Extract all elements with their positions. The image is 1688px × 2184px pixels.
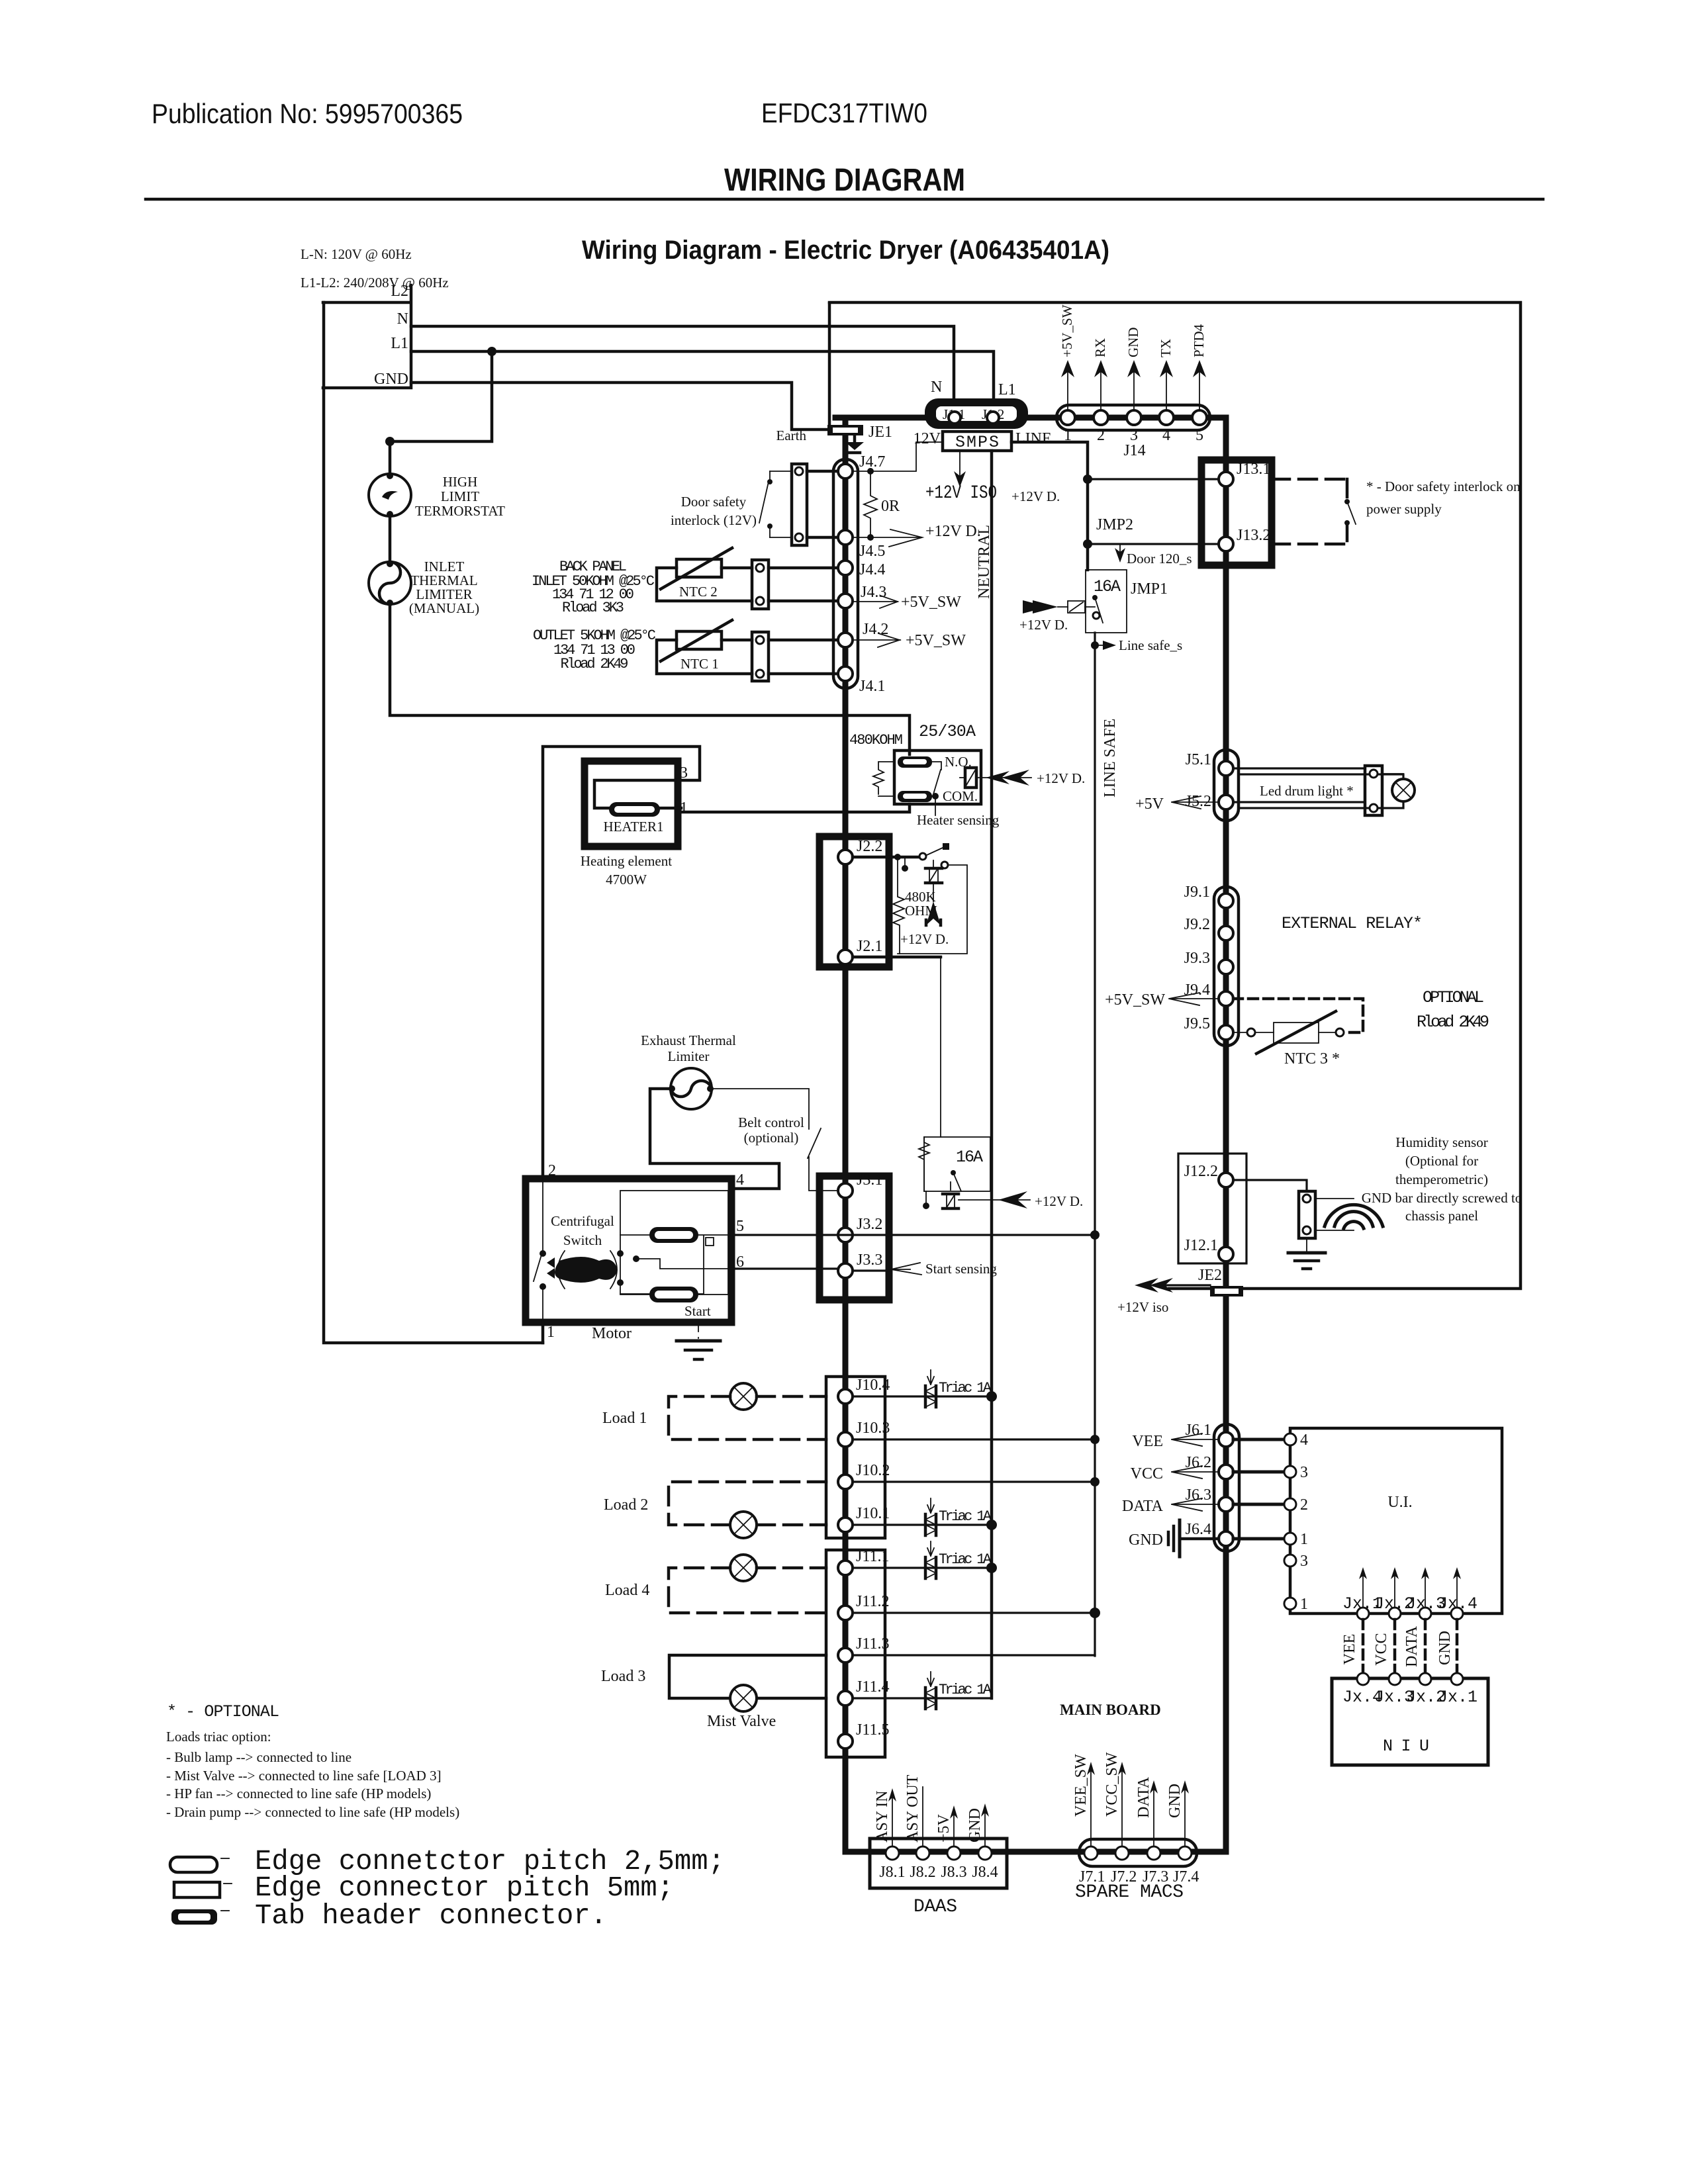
wire +12V D. loop J2 [898,865,967,954]
svg-text:(optional): (optional) [744,1130,799,1146]
wire COM to heater sensing [935,796,936,815]
wire motor pin6 to J3.3 [731,1269,890,1271]
svg-text:GND: GND [374,371,408,388]
svg-text:DATA: DATA [1135,1776,1152,1818]
lamp drum light [1392,779,1415,801]
wire J14.5 signal arrow PTD4 [1191,324,1207,410]
svg-text:- Mist Valve --> connected to: - Mist Valve --> connected to line safe … [166,1768,442,1784]
svg-text:+5V_SW: +5V_SW [1105,991,1165,1009]
svg-text:NIU: NIU [1383,1737,1429,1756]
wire GND arrow DAAS [966,1803,989,1846]
wire door interlock to J4 [807,471,845,537]
svg-text:J13.1: J13.1 [1237,461,1270,478]
wire VEE_SW arrow [1072,1754,1095,1846]
wire ASY IN arrow [874,1788,896,1846]
relay 25/30A heater [873,751,981,804]
svg-text:J4.4: J4.4 [859,561,885,578]
svg-text:16A: 16A [1094,577,1121,596]
svg-text:DATA: DATA [1403,1625,1421,1667]
power supply SMPS [914,430,1052,452]
svg-text:4: 4 [1162,427,1170,444]
svg-text:Door safety: Door safety [681,494,747,510]
svg-text:TX: TX [1158,339,1174,357]
connector J7 spare macs [1079,1839,1199,1886]
svg-text:Heater sensing: Heater sensing [917,812,1000,828]
wire GND [411,303,829,430]
ground motor start [677,1322,720,1359]
svg-text:Door 120_s: Door 120_s [1127,551,1192,567]
svg-text:- HP fan --> connected to line: - HP fan --> connected to line safe (HP … [166,1786,431,1801]
lamp load3 mist valve [730,1685,757,1711]
wire J2.2 sensing [853,843,949,872]
svg-text:JE1: JE1 [868,424,892,441]
svg-text:Belt control: Belt control [738,1115,804,1130]
svg-text:NTC 3 *: NTC 3 * [1284,1050,1340,1068]
connector J5 edge [1186,750,1239,821]
wire motor pin5 to J3.2 [731,1234,1095,1236]
svg-text:(Optional for: (Optional for [1405,1153,1478,1169]
svg-text:1: 1 [1300,1531,1308,1548]
wire J4.3 +5V_SW signal [853,594,961,611]
wire +12V D. to motor relay [959,1191,1083,1209]
svg-text:JMP1: JMP1 [1131,580,1168,598]
svg-text:Motor: Motor [592,1325,632,1342]
heater HEATER1 [585,761,688,846]
wire main top bus [835,415,1226,421]
lamp load1 [730,1383,757,1410]
wire DATA arrow spare [1135,1776,1158,1846]
svg-text:VEE: VEE [1341,1634,1358,1665]
wire J6 to UI pins [1233,1439,1290,1539]
label +5V with arrow at J5.2 [1135,796,1219,813]
svg-text:Switch: Switch [563,1232,602,1248]
node load1 neutral [986,1391,997,1402]
svg-text:VEE_SW: VEE_SW [1072,1754,1090,1817]
connector J6 edge [1186,1422,1239,1551]
svg-text:GND: GND [1436,1631,1454,1665]
svg-text:Tab header connector.: Tab header connector. [255,1899,607,1932]
svg-text:Start: Start [684,1303,711,1319]
humidity sensor connector [1233,1180,1354,1238]
svg-text:J4.3: J4.3 [861,584,886,601]
wire dashed load4 [669,1568,826,1613]
fuse 16A with JMP1 [1019,570,1168,633]
wire J11.4 output [853,1697,992,1699]
svg-text:J4.5: J4.5 [859,543,885,560]
wire L1 branch to thermostats [390,351,492,474]
fuse heater sensing [960,768,1031,788]
note door safety interlock on power supply [1366,478,1521,517]
switch door interlock [759,471,773,537]
svg-text:Load 2: Load 2 [604,1496,648,1514]
svg-text:J14: J14 [1123,442,1145,459]
svg-text:J8.1: J8.1 [879,1864,905,1881]
svg-text:J9.1: J9.1 [1184,884,1210,901]
svg-text:LINE: LINE [1015,430,1052,447]
triac 1A load4 [925,1541,992,1578]
node L1 branch [487,347,496,356]
pins UI bottom [1357,1608,1463,1619]
label humidity sensor note [1362,1134,1523,1224]
svg-text:L1-L2: 240/208V @ 60Hz: L1-L2: 240/208V @ 60Hz [301,275,449,291]
wire dashed load1 [669,1396,826,1439]
wire J2.1 [853,956,941,959]
wire VCC_SW arrow [1103,1752,1126,1846]
wire J10.4 output [853,1395,992,1397]
led drum light assembly [1233,766,1403,815]
wire L1 [411,351,994,409]
wire SMPS 12V input from J4.7 [845,442,943,471]
connector J10 [826,1377,890,1538]
wire JMP2 to J13.2 [1088,543,1219,545]
wire J10.3 VEE [853,1438,1095,1440]
svg-text:power supply: power supply [1366,501,1442,517]
connector J12 [1178,1154,1246,1263]
motor box [526,1179,731,1322]
svg-text:MAIN BOARD: MAIN BOARD [1060,1702,1161,1718]
svg-text:J9.5: J9.5 [1184,1015,1210,1032]
wire SMPS +12V ISO output [925,451,997,504]
thermal limiter exhaust [669,1068,714,1109]
wire +5V arrow [935,1805,958,1846]
svg-text:J12.1: J12.1 [1184,1237,1218,1254]
svg-text:Publication No: 5995700365: Publication No: 5995700365 [152,98,463,129]
svg-text:Led drum light *: Led drum light * [1260,783,1354,799]
svg-text:J8.4: J8.4 [972,1864,998,1881]
svg-text:HEATER1: HEATER1 [604,819,664,835]
node 0R top [867,468,874,475]
opto triac J2 drive [925,860,948,925]
svg-text:VEE: VEE [1132,1433,1163,1450]
svg-text:Load 4: Load 4 [605,1582,649,1599]
svg-text:* - OPTIONAL: * - OPTIONAL [167,1702,279,1721]
svg-text:L2: L2 [391,283,408,300]
svg-text:TERMORSTAT: TERMORSTAT [415,503,505,519]
wire exhaust limiter loop to motor pin4 [650,1089,779,1189]
wire J11.1 output [853,1567,992,1569]
svg-text:J3.1: J3.1 [857,1171,882,1189]
svg-text:+12V D.: +12V D. [1011,488,1060,504]
wire J10.1 output [853,1524,992,1525]
triac 1A load1 [925,1370,992,1407]
label VCC arrow [1131,1465,1219,1482]
thermal limiter inlet [369,561,411,606]
svg-text:480KOHM: 480KOHM [849,732,903,749]
connector door interlock [770,464,807,545]
svg-text:1: 1 [547,1324,555,1341]
svg-text:J13.2: J13.2 [1237,527,1270,544]
connector J2 tab [820,837,889,967]
node VCC linesafe [1090,1477,1100,1486]
svg-text:GND: GND [1129,1531,1163,1549]
connector J11 [826,1548,889,1757]
label heating element [581,853,672,887]
svg-text:interlock (12V): interlock (12V) [671,512,757,528]
label Jx pins on UI [1342,1594,1477,1614]
svg-text:J4.7: J4.7 [859,453,885,471]
svg-text:J11.2: J11.2 [856,1593,889,1610]
connector NTC1 edge [752,632,769,681]
svg-text:ASY IN: ASY IN [874,1791,891,1843]
svg-text:J12.2: J12.2 [1184,1163,1218,1180]
svg-text:- Drain pump --> connected to: - Drain pump --> connected to line safe … [166,1804,459,1820]
wire dashed load2 [669,1482,826,1525]
svg-text:25/30A: 25/30A [919,722,976,741]
svg-text:3: 3 [1300,1553,1308,1570]
svg-text:RX: RX [1092,338,1108,357]
svg-text:GND: GND [1125,328,1141,358]
wire J11.2 [853,1612,1095,1614]
connector J4 edge [833,459,858,688]
svg-text:Load 3: Load 3 [601,1668,645,1685]
svg-text:NEUTRAL: NEUTRAL [976,525,993,599]
svg-text:LINE SAFE: LINE SAFE [1102,719,1119,797]
svg-text:+5V_SW: +5V_SW [906,632,966,649]
svg-text:OPTIONAL: OPTIONAL [1423,988,1484,1007]
svg-text:GND: GND [1166,1784,1184,1818]
resistor 0R [864,471,900,537]
svg-text:J4.1: J4.1 [859,678,885,695]
ground earth symbol below JE1 [845,435,864,453]
svg-text:* - Door safety interlock on: * - Door safety interlock on [1366,478,1521,494]
motor windings box [617,1191,731,1302]
svg-text:+12V ISO: +12V ISO [925,483,997,504]
svg-text:J10.2: J10.2 [856,1462,890,1479]
svg-text:Heating element: Heating element [581,853,672,869]
svg-text:5: 5 [1196,427,1203,444]
connector J8 DAAS box [870,1839,1007,1888]
wire dashed DATA drop [1403,1619,1425,1673]
wire motor pin1 to border [541,1322,545,1343]
connector J3 tab [820,1171,889,1300]
gnd bar arcs symbol [1325,1205,1383,1228]
svg-text:WIRING DIAGRAM: WIRING DIAGRAM [724,163,965,198]
svg-text:VCC: VCC [1373,1633,1390,1665]
svg-text:DAAS: DAAS [914,1897,957,1917]
wire +12VD down to motor relay [940,957,941,1137]
legend edge connector 5mm symbol [174,1882,232,1897]
svg-text:J8.2: J8.2 [910,1864,935,1881]
wire dashed door interlock on supply [1272,479,1356,544]
connector J1 tab header [925,398,1028,429]
wire ASY OUT arrow [904,1774,923,1846]
svg-text:Load 1: Load 1 [602,1410,647,1427]
node J3.2 line safe [1090,1230,1100,1240]
wire dashed VCC drop [1373,1619,1395,1673]
svg-text:J11.3: J11.3 [856,1635,889,1653]
svg-text:J11.1: J11.1 [856,1548,889,1565]
wire left border (L2 / motor pin1 return) [324,302,543,1343]
svg-text:Rload 3K3: Rload 3K3 [562,600,624,616]
svg-text:L1: L1 [998,381,1016,398]
svg-text:PTD4: PTD4 [1191,324,1207,357]
connector JE1 tab [776,424,892,443]
wire dashed GND drop [1436,1619,1457,1673]
wire main left bus [843,418,849,1852]
svg-text:Jx.1: Jx.1 [1438,1688,1477,1707]
connector J9 edge [1184,884,1239,1046]
legend edge connector 2.5mm symbol [170,1857,229,1872]
svg-text:Triac 1A: Triac 1A [939,1380,992,1396]
svg-text:N: N [397,310,408,328]
svg-text:J11.4: J11.4 [856,1678,889,1696]
resistor 480K OHM [893,857,937,954]
svg-text:J11.5: J11.5 [856,1721,889,1739]
svg-text:+5V_SW: +5V_SW [1059,304,1075,357]
wire +12V iso into board [1117,1278,1210,1315]
svg-text:JE2: JE2 [1198,1267,1222,1284]
svg-text:Loads triac option:: Loads triac option: [166,1729,271,1745]
svg-text:Triac 1A: Triac 1A [939,1508,992,1525]
label centrifugal switch [551,1213,614,1248]
svg-text:Humidity sensor: Humidity sensor [1395,1134,1487,1150]
label belt control [738,1115,804,1146]
wire J11.3 linesafe [853,1654,1095,1656]
svg-text:EXTERNAL RELAY*: EXTERNAL RELAY* [1282,914,1423,933]
svg-text:+12V D.: +12V D. [1037,770,1085,786]
svg-text:+12V D.: +12V D. [925,523,981,540]
svg-text:+5V: +5V [1135,796,1164,813]
thermistor NTC3 [1233,1011,1344,1068]
node VEE linesafe [1090,1435,1100,1444]
wire NEUTRAL bus [990,451,994,1698]
node J11.2 linesafe end [1090,1608,1100,1618]
wire Door 120_s arrow [1115,544,1192,567]
svg-text:+12V D.: +12V D. [1019,617,1068,633]
svg-text:NTC 1: NTC 1 [680,656,719,672]
wire load3 solid [669,1655,826,1698]
wire NTC1 to J4.2/J4.1 [769,640,845,674]
label GND with ground symbol at J6.4 [1129,1520,1219,1557]
box U.I. [1284,1428,1502,1614]
wire heater pin1 to relay COM [681,811,910,813]
svg-text:J9.3: J9.3 [1184,950,1210,967]
lamp load4 [730,1555,757,1581]
wire J14.1 signal arrow +5V_SW [1059,304,1075,410]
label outlet NTC1 [533,627,656,672]
svg-text:1: 1 [1300,1596,1308,1613]
wire heater pin3 to motor [543,747,700,1179]
triac 1A load2 [925,1498,992,1535]
label inlet thermal limiter [409,559,479,616]
wire main right bus [1223,418,1229,1852]
svg-text:VCC_SW: VCC_SW [1103,1752,1121,1817]
svg-text:Centrifugal: Centrifugal [551,1213,614,1229]
svg-text:Mist Valve: Mist Valve [707,1713,776,1730]
svg-text:DATA: DATA [1122,1498,1164,1515]
switch belt control [808,1128,838,1191]
connector J13 tab [1201,460,1272,565]
svg-text:EFDC317TIW0: EFDC317TIW0 [761,97,927,128]
svg-text:J8.3: J8.3 [941,1864,966,1881]
input terminal block L2/N/L1/GND [323,283,411,388]
svg-text:+5V_SW: +5V_SW [901,594,961,611]
label back panel inlet NTC2 [532,559,655,616]
wire N [411,326,954,409]
svg-text:Earth: Earth [776,428,807,443]
svg-text:themperometric): themperometric) [1395,1171,1488,1187]
thermistor NTC1 [657,620,752,674]
svg-text:- Bulb lamp --> connected to l: - Bulb lamp --> connected to line [166,1749,352,1765]
thermistor NTC2 [657,548,752,601]
svg-text:1: 1 [680,799,688,817]
label door safety interlock [671,494,757,528]
wire dashed J9.4 to NTC3 [1233,999,1363,1032]
wire line safe bus [1094,633,1096,1656]
svg-text:Line safe_s: Line safe_s [1119,637,1182,653]
label OPTIONAL Rload 2K49 [1417,988,1489,1032]
svg-text:Triac 1A: Triac 1A [939,1551,992,1568]
wire heater feed 480KOHM loop [681,804,910,812]
svg-text:4: 4 [1300,1432,1308,1449]
svg-text:2: 2 [1097,427,1105,444]
svg-text:LIMIT: LIMIT [441,488,479,504]
svg-text:L-N: 120V @ 60Hz: L-N: 120V @ 60Hz [301,246,412,262]
label exhaust thermal limiter [641,1032,736,1064]
ground humidity sensor [1288,1238,1325,1269]
svg-text:Wiring Diagram - Electric Drye: Wiring Diagram - Electric Dryer (A064354… [582,236,1109,265]
wire J14.3 signal arrow GND [1125,328,1141,411]
svg-text:J2.2: J2.2 [857,838,882,855]
svg-text:VCC: VCC [1131,1465,1163,1482]
label high limit thermostat [415,474,505,519]
triac 1A load3 [925,1672,992,1709]
connector JE2 tab [1198,1267,1243,1297]
label +5V_SW with arrow at J9.4 [1105,991,1219,1009]
svg-text:J3.3: J3.3 [857,1251,882,1269]
svg-text:+12V iso: +12V iso [1117,1299,1168,1315]
svg-text:2: 2 [548,1162,556,1179]
wire line to J13.1 [1088,478,1219,480]
wire NTC2 to J4.4/J4.3 [769,568,845,601]
wire J10.2 VCC [853,1480,1095,1482]
label start sensing with arrow [890,1261,997,1277]
svg-text:U.I.: U.I. [1387,1494,1412,1511]
wire J14.2 signal arrow RX [1092,338,1108,410]
svg-text:N: N [931,379,942,396]
svg-text:4700W: 4700W [606,872,647,887]
node 0R bottom [867,534,874,541]
opto triac motor relay drive [943,1182,959,1208]
svg-text:+5V: +5V [935,1813,953,1843]
svg-text:SPARE MACS: SPARE MACS [1075,1882,1184,1903]
svg-text:J3.2: J3.2 [857,1216,882,1233]
node load2 neutral [986,1520,997,1530]
wire J4.2 +5V_SW signal [853,632,966,649]
svg-text:12V: 12V [914,430,941,447]
svg-text:J9.4: J9.4 [1184,981,1210,999]
switch centrifugal [534,1179,546,1322]
svg-text:5: 5 [736,1218,744,1235]
svg-text:+12V D.: +12V D. [900,931,949,947]
svg-text:COM.: COM. [943,788,978,804]
svg-text:Start sensing: Start sensing [925,1261,997,1277]
svg-text:J5.1: J5.1 [1186,751,1211,768]
label Line safe_s with arrow [1095,637,1182,653]
svg-text:2: 2 [1300,1496,1308,1514]
svg-text:ASY OUT: ASY OUT [904,1774,921,1843]
label VEE arrow [1132,1433,1219,1450]
svg-text:3: 3 [1300,1464,1308,1481]
svg-text:chassis panel: chassis panel [1405,1208,1478,1224]
wire exhaust limiter to belt switch [712,1089,809,1129]
wire Jx arrows up [1359,1567,1461,1608]
svg-text:JMP2: JMP2 [1096,516,1133,533]
svg-text:Exhaust Thermal: Exhaust Thermal [641,1032,736,1048]
svg-text:J10.1: J10.1 [856,1505,890,1522]
svg-text:GND: GND [966,1808,984,1843]
connector J14 edge [1056,405,1210,459]
